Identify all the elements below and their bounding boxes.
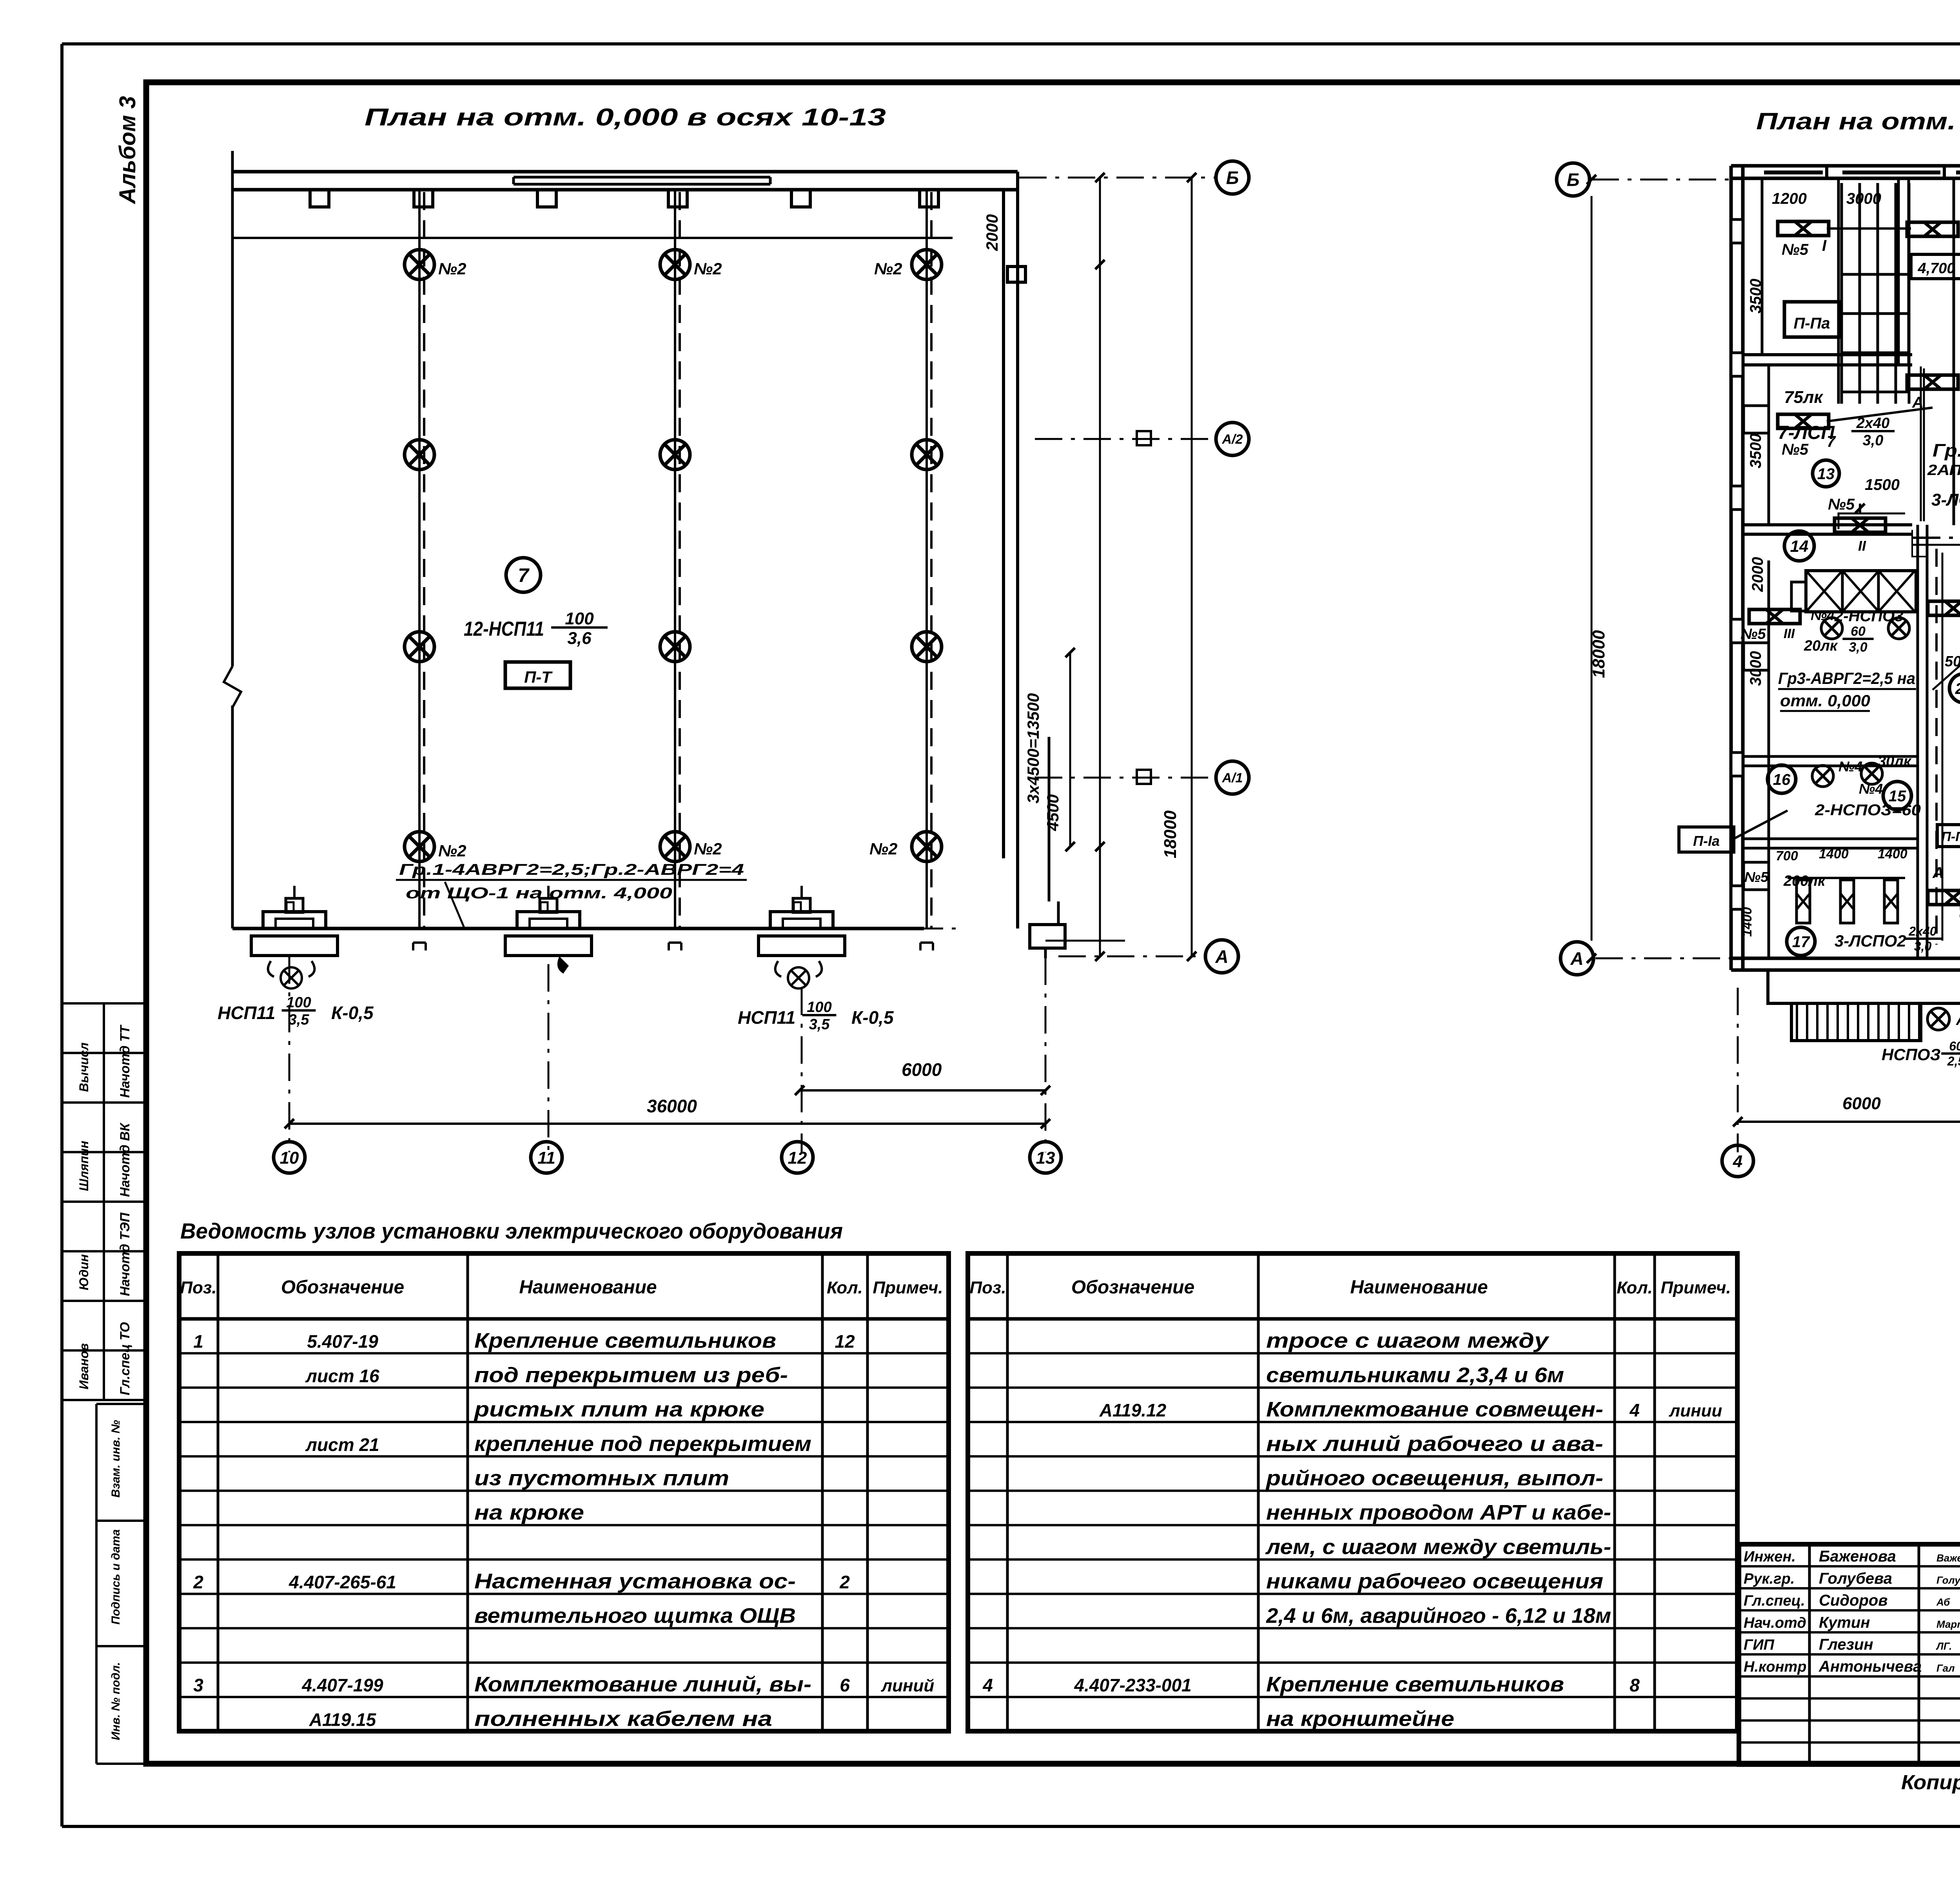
- svg-text:2х40: 2х40: [1908, 924, 1936, 938]
- svg-text:Поз.: Поз.: [180, 1278, 216, 1297]
- svg-text:А119.15: А119.15: [309, 1709, 377, 1730]
- svg-text:Гл.спец ТО: Гл.спец ТО: [118, 1322, 132, 1395]
- svg-text:3,0: 3,0: [1914, 939, 1932, 953]
- svg-text:3х4500=13500: 3х4500=13500: [1024, 693, 1042, 803]
- svg-text:ненных проводом АРТ и кабе-: ненных проводом АРТ и кабе-: [1266, 1501, 1611, 1524]
- svg-text:Комплектование совмещен-: Комплектование совмещен-: [1266, 1398, 1603, 1421]
- svg-text:Подпись и дата: Подпись и дата: [109, 1529, 122, 1625]
- svg-text:Глезин: Глезин: [1819, 1636, 1873, 1653]
- svg-text:Кутин: Кутин: [1819, 1614, 1870, 1631]
- svg-text:отм. 0,000: отм. 0,000: [1780, 691, 1870, 710]
- svg-text:ных линий рабочего и ава-: ных линий рабочего и ава-: [1266, 1432, 1603, 1456]
- svg-text:36000: 36000: [647, 1096, 697, 1116]
- svg-text:А: А: [1932, 864, 1944, 881]
- svg-text:К-0,5: К-0,5: [331, 1003, 374, 1023]
- svg-text:на крюке: на крюке: [474, 1501, 584, 1524]
- svg-text:2-НСПОЗ=60: 2-НСПОЗ=60: [1815, 802, 1921, 819]
- svg-text:30лк: 30лк: [1878, 753, 1912, 770]
- svg-text:План на отм. 3,200: План на отм. 3,200: [1756, 108, 1960, 134]
- svg-text:Примеч.: Примеч.: [1661, 1278, 1731, 1297]
- svg-text:3-ЛСПО2: 3-ЛСПО2: [1931, 490, 1960, 510]
- svg-text:3,6: 3,6: [567, 629, 592, 648]
- svg-text:№2: №2: [869, 840, 898, 858]
- svg-text:Инжен.: Инжен.: [1744, 1549, 1796, 1565]
- svg-text:12-НСП11: 12-НСП11: [464, 618, 544, 640]
- svg-text:2,5: 2,5: [1947, 1054, 1960, 1068]
- svg-text:№2: №2: [438, 259, 466, 278]
- svg-text:4: 4: [982, 1675, 993, 1696]
- svg-text:4500: 4500: [1044, 794, 1062, 831]
- svg-text:№2: №2: [694, 840, 722, 858]
- svg-text:Гл.спец.: Гл.спец.: [1744, 1593, 1805, 1609]
- svg-text:линии: линии: [1669, 1401, 1722, 1420]
- svg-text:Сидоров: Сидоров: [1819, 1592, 1888, 1609]
- svg-text:№5: №5: [1782, 241, 1809, 258]
- svg-text:А: А: [1215, 947, 1228, 967]
- svg-text:Альбом 3: Альбом 3: [115, 96, 140, 205]
- svg-text:П-Па: П-Па: [1941, 829, 1960, 844]
- svg-text:План на отм. 0,000 в осях 10: План на отм. 0,000 в осях 10-13: [365, 104, 886, 131]
- svg-text:6: 6: [840, 1675, 850, 1696]
- svg-text:№5: №5: [1782, 441, 1809, 458]
- svg-text:Начотд ТЭП: Начотд ТЭП: [118, 1212, 132, 1296]
- svg-text:№2: №2: [438, 841, 466, 860]
- svg-text:А: А: [1570, 948, 1583, 969]
- svg-text:3,5: 3,5: [809, 1016, 830, 1033]
- svg-text:Мартин: Мартин: [1936, 1618, 1960, 1630]
- svg-text:№5: №5: [1740, 626, 1766, 642]
- svg-text:П-Па: П-Па: [1793, 315, 1830, 332]
- svg-text:10: 10: [280, 1148, 299, 1168]
- svg-text:ГИП: ГИП: [1744, 1637, 1775, 1653]
- svg-text:4,700: 4,700: [1917, 260, 1955, 277]
- svg-text:11: 11: [537, 1148, 555, 1168]
- svg-text:3500: 3500: [1747, 279, 1764, 314]
- svg-text:лем, с шагом между светиль-: лем, с шагом между светиль-: [1265, 1535, 1611, 1559]
- svg-text:лист 16: лист 16: [305, 1366, 379, 1386]
- svg-text:Комплектование линий, вы-: Комплектование линий, вы-: [474, 1673, 811, 1696]
- svg-text:2,4 и 6м, аварийного - 6,12 и: 2,4 и 6м, аварийного - 6,12 и 18м: [1266, 1604, 1611, 1627]
- svg-text:8: 8: [1630, 1675, 1640, 1696]
- svg-text:Шляпин: Шляпин: [77, 1141, 91, 1191]
- svg-text:Ведомость узлов установки элек: Ведомость узлов установки электрического…: [180, 1219, 843, 1243]
- svg-text:полненных кабелем на: полненных кабелем на: [474, 1707, 772, 1730]
- svg-text:III: III: [1784, 626, 1795, 641]
- svg-text:Н.контр: Н.контр: [1744, 1659, 1806, 1675]
- svg-text:3,0: 3,0: [1863, 432, 1884, 449]
- svg-text:5.407-19: 5.407-19: [307, 1331, 378, 1352]
- svg-text:60: 60: [1851, 624, 1866, 639]
- svg-text:700: 700: [1776, 849, 1798, 863]
- svg-text:НСП11: НСП11: [218, 1003, 275, 1023]
- svg-text:А119.12: А119.12: [1099, 1400, 1167, 1420]
- svg-text:4.407-265-61: 4.407-265-61: [289, 1572, 396, 1592]
- svg-text:2: 2: [839, 1572, 850, 1592]
- svg-text:Примеч.: Примеч.: [873, 1278, 943, 1297]
- svg-text:Гр.1-4АВРГ2=2,5;Гр.2-АВРГ2=4: Гр.1-4АВРГ2=2,5;Гр.2-АВРГ2=4: [399, 861, 744, 878]
- svg-text:Рук.гр.: Рук.гр.: [1744, 1571, 1795, 1587]
- svg-text:НСПОЗ: НСПОЗ: [1882, 1045, 1941, 1064]
- svg-text:2х40: 2х40: [1856, 415, 1890, 432]
- svg-text:17: 17: [1792, 933, 1810, 950]
- svg-text:Наименование: Наименование: [519, 1277, 657, 1298]
- svg-text:Кол.: Кол.: [827, 1278, 863, 1297]
- svg-text:18000: 18000: [1589, 630, 1608, 678]
- svg-text:I: I: [1822, 237, 1827, 254]
- svg-text:Копировал Лукичева: Копировал Лукичева: [1901, 1771, 1960, 1794]
- svg-text:18000: 18000: [1161, 810, 1180, 858]
- svg-text:Крепление светильников: Крепление светильников: [1266, 1673, 1564, 1696]
- svg-text:16: 16: [1773, 771, 1791, 788]
- svg-text:4.407-233-001: 4.407-233-001: [1074, 1675, 1191, 1696]
- svg-text:1400: 1400: [1740, 907, 1755, 937]
- svg-text:3-ЛСПО2: 3-ЛСПО2: [1835, 932, 1906, 950]
- svg-text:100: 100: [565, 609, 594, 628]
- svg-text:Антонычева: Антонычева: [1818, 1658, 1922, 1675]
- svg-text:Взам. инв. №: Взам. инв. №: [109, 1420, 122, 1498]
- svg-text:2000: 2000: [1749, 557, 1766, 592]
- svg-text:4.407-199: 4.407-199: [301, 1675, 383, 1696]
- svg-text:Начотд ТТ: Начотд ТТ: [118, 1024, 132, 1098]
- svg-text:рийного освещения, выпол-: рийного освещения, выпол-: [1265, 1467, 1603, 1490]
- svg-text:2: 2: [193, 1572, 203, 1592]
- svg-text:Нач.отд: Нач.отд: [1744, 1615, 1806, 1631]
- svg-text:3500: 3500: [1747, 433, 1764, 468]
- svg-text:А: А: [1956, 1011, 1960, 1028]
- svg-text:4: 4: [1629, 1400, 1640, 1420]
- svg-text:П-Iа: П-Iа: [1693, 833, 1720, 849]
- svg-text:Поз.: Поз.: [969, 1278, 1006, 1297]
- svg-text:6000: 6000: [902, 1059, 942, 1080]
- svg-text:никами рабочего освещения: никами рабочего освещения: [1266, 1570, 1603, 1593]
- svg-text:Голубева: Голубева: [1819, 1570, 1892, 1587]
- svg-text:4: 4: [1733, 1152, 1742, 1171]
- svg-text:20лк: 20лк: [1804, 638, 1838, 654]
- svg-text:Крепление светильников: Крепление светильников: [474, 1329, 776, 1353]
- svg-text:60: 60: [1949, 1039, 1960, 1053]
- svg-text:№2: №2: [874, 259, 902, 278]
- svg-text:Аб: Аб: [1936, 1596, 1950, 1608]
- svg-text:Обозначение: Обозначение: [281, 1277, 404, 1298]
- svg-text:№4: №4: [1838, 758, 1862, 774]
- svg-text:Инв. № подл.: Инв. № подл.: [109, 1662, 122, 1740]
- svg-text:лист 21: лист 21: [305, 1434, 379, 1455]
- svg-text:на кронштейне: на кронштейне: [1266, 1707, 1454, 1730]
- svg-text:№4: №4: [1859, 781, 1883, 797]
- svg-text:21: 21: [1955, 680, 1960, 697]
- svg-text:7: 7: [518, 564, 530, 586]
- svg-text:Б: Б: [1567, 170, 1580, 190]
- svg-text:1400: 1400: [1878, 847, 1907, 861]
- svg-text:1200: 1200: [1772, 190, 1807, 207]
- svg-text:12: 12: [788, 1148, 807, 1168]
- svg-text:№4: №4: [1811, 607, 1835, 623]
- svg-text:№5: №5: [1744, 869, 1769, 885]
- svg-text:№5: №5: [1828, 496, 1855, 513]
- svg-text:крепление под перекрытием: крепление под перекрытием: [474, 1432, 811, 1456]
- svg-text:тросе с шагом между: тросе с шагом между: [1266, 1329, 1550, 1353]
- svg-text:из пустотных плит: из пустотных плит: [474, 1467, 729, 1490]
- svg-text:13: 13: [1817, 465, 1835, 482]
- svg-text:№2: №2: [694, 259, 722, 278]
- svg-text:светильниками 2,3,4 и 6м: светильниками 2,3,4 и 6м: [1266, 1363, 1564, 1387]
- svg-text:Важен: Важен: [1936, 1552, 1960, 1564]
- svg-text:Настенная установка ос-: Настенная установка ос-: [474, 1570, 796, 1593]
- svg-text:К-0,5: К-0,5: [851, 1007, 894, 1028]
- svg-text:II: II: [1858, 538, 1866, 554]
- svg-text:2000: 2000: [983, 214, 1001, 251]
- svg-text:1400: 1400: [1819, 847, 1849, 861]
- svg-text:ристых плит на крюке: ристых плит на крюке: [474, 1398, 764, 1421]
- svg-text:Наименование: Наименование: [1350, 1277, 1488, 1298]
- svg-text:Кол.: Кол.: [1617, 1278, 1653, 1297]
- svg-text:6000: 6000: [1842, 1094, 1881, 1113]
- svg-text:Гр3-АВРГ2=2,5 на: Гр3-АВРГ2=2,5 на: [1778, 669, 1915, 687]
- svg-text:14: 14: [1790, 537, 1809, 555]
- svg-text:Гал: Гал: [1936, 1662, 1955, 1674]
- svg-text:ветительного щитка ОЩВ: ветительного щитка ОЩВ: [474, 1604, 796, 1627]
- svg-text:Б: Б: [1226, 168, 1239, 188]
- svg-text:100: 100: [807, 999, 831, 1016]
- svg-text:Вычисл: Вычисл: [77, 1043, 91, 1092]
- svg-text:2-НСПО3: 2-НСПО3: [1834, 608, 1903, 625]
- svg-text:5500: 5500: [1958, 710, 1960, 745]
- svg-text:Гр.Б и 1-А: Гр.Б и 1-А: [1933, 440, 1960, 461]
- svg-text:1: 1: [193, 1331, 203, 1352]
- svg-text:Иванов: Иванов: [77, 1343, 91, 1389]
- svg-text:ЛГ.: ЛГ.: [1936, 1640, 1952, 1652]
- svg-text:Голубев: Голубев: [1936, 1574, 1960, 1586]
- svg-text:линий: линий: [881, 1676, 935, 1696]
- svg-text:12: 12: [835, 1331, 855, 1352]
- svg-text:75лк: 75лк: [1784, 388, 1824, 407]
- svg-text:3,0: 3,0: [1849, 640, 1867, 655]
- svg-text:3000: 3000: [1846, 190, 1881, 207]
- svg-text:Начотд ВК: Начотд ВК: [118, 1122, 132, 1197]
- svg-text:1500: 1500: [1865, 476, 1900, 493]
- svg-text:Баженова: Баженова: [1819, 1548, 1896, 1565]
- svg-text:7-ЛСП: 7-ЛСП: [1778, 423, 1835, 443]
- svg-text:2АППВ2=2,5 на отм.0,000: 2АППВ2=2,5 на отм.0,000: [1927, 462, 1960, 479]
- svg-text:3000: 3000: [1747, 651, 1764, 686]
- svg-text:П-Т: П-Т: [524, 668, 553, 686]
- svg-text:А/2: А/2: [1222, 432, 1243, 447]
- svg-text:под перекрытием из реб-: под перекрытием из реб-: [474, 1363, 788, 1387]
- svg-text:А/1: А/1: [1222, 771, 1243, 785]
- svg-text:3: 3: [193, 1675, 203, 1696]
- svg-text:3,5: 3,5: [289, 1012, 310, 1028]
- svg-text:13: 13: [1036, 1148, 1055, 1168]
- svg-text:Юдин: Юдин: [77, 1254, 91, 1290]
- svg-text:НСП11: НСП11: [738, 1007, 795, 1028]
- svg-text:Обозначение: Обозначение: [1071, 1277, 1194, 1298]
